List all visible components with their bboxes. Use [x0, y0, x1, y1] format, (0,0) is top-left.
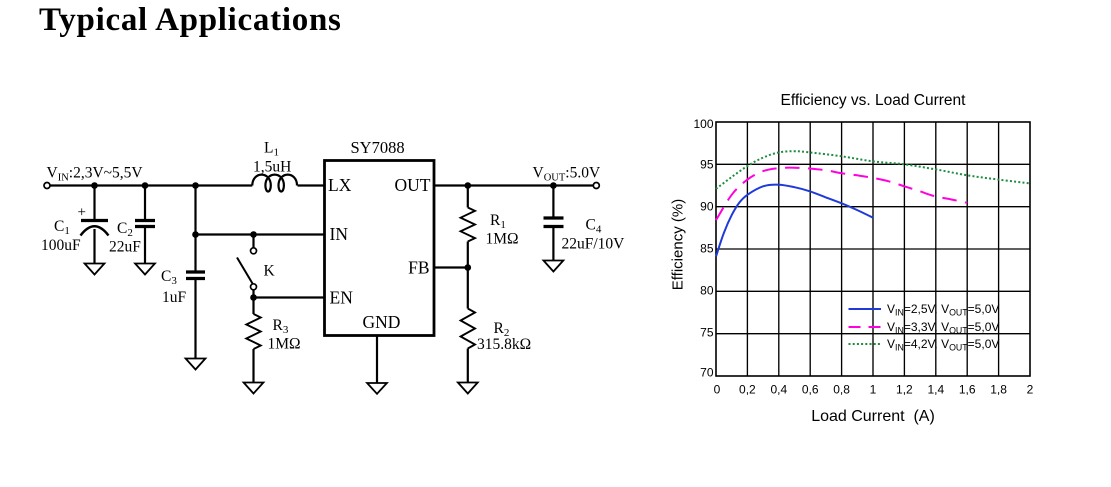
gridlines horizontal	[716, 164, 1030, 333]
svg-text:80: 80	[700, 284, 714, 298]
node switch top	[250, 231, 257, 238]
svg-text:0: 0	[714, 383, 721, 397]
capacitor C3	[186, 235, 205, 359]
svg-text:LX: LX	[328, 175, 352, 195]
curve VIN=3.3V (magenta dashed)	[716, 168, 967, 221]
svg-text:C2: C2	[117, 220, 133, 239]
node C1	[91, 182, 98, 189]
svg-text:R1: R1	[490, 212, 506, 231]
svg-text:1,8: 1,8	[990, 383, 1007, 397]
node R1 top	[465, 182, 472, 189]
ground (R3)	[244, 383, 264, 394]
wire: inductor to LX pin	[298, 184, 325, 186]
plot border	[716, 122, 1030, 376]
svg-text:1MΩ: 1MΩ	[486, 231, 519, 248]
ground (C2)	[135, 264, 155, 275]
wire: GND pin	[376, 336, 378, 384]
svg-text:1MΩ: 1MΩ	[268, 336, 301, 353]
svg-text:85: 85	[700, 242, 714, 256]
node FB	[465, 264, 472, 271]
capacitor C4	[544, 186, 564, 261]
wire: IN rail to IN pin	[196, 233, 325, 235]
wire: FB pin	[434, 266, 468, 268]
svg-text:0,4: 0,4	[770, 383, 787, 397]
legend sample blue	[849, 308, 882, 310]
wire: input to inductor	[50, 184, 252, 186]
resistor R2	[461, 268, 475, 383]
svg-text:0,2: 0,2	[739, 383, 756, 397]
svg-text:FB: FB	[408, 258, 429, 278]
inductor L1	[252, 175, 297, 192]
output terminal	[593, 183, 599, 189]
svg-text:C3: C3	[161, 268, 177, 287]
svg-text:Typical Applications: Typical Applications	[39, 2, 342, 38]
ground (GND pin)	[367, 383, 387, 394]
svg-text:1uF: 1uF	[162, 289, 187, 306]
resistor R1	[461, 186, 475, 268]
gridlines vertical	[747, 122, 998, 376]
x tick labels	[714, 383, 1034, 397]
svg-text:R3: R3	[273, 317, 289, 336]
svg-text:1,6: 1,6	[959, 383, 976, 397]
input terminal	[44, 183, 50, 189]
svg-text:1,2: 1,2	[896, 383, 913, 397]
svg-text:0,6: 0,6	[802, 383, 819, 397]
curve VIN=2.5V (blue)	[716, 185, 873, 257]
legend sample magenta	[849, 326, 882, 328]
legend sample green	[849, 343, 882, 345]
svg-text:OUT: OUT	[395, 175, 431, 195]
svg-text:Load Current (A): Load Current (A)	[811, 408, 935, 425]
svg-text:K: K	[264, 263, 276, 280]
ground (C1)	[85, 264, 105, 275]
svg-text:1,4: 1,4	[927, 383, 944, 397]
svg-text:100: 100	[693, 117, 713, 131]
svg-text:L1: L1	[264, 140, 279, 159]
svg-text:VIN:2,3V~5,5V: VIN:2,3V~5,5V	[47, 165, 144, 184]
svg-text:70: 70	[700, 366, 714, 380]
svg-text:0,8: 0,8	[833, 383, 850, 397]
node EN/R3	[250, 294, 257, 301]
wire: switch to EN pin	[254, 296, 325, 298]
curve VIN=4.2V (green dotted)	[716, 151, 1030, 189]
wire: node A down to IN rail	[194, 186, 196, 235]
svg-text:22uF: 22uF	[109, 239, 141, 256]
svg-text:100uF: 100uF	[41, 237, 81, 254]
svg-text:Efficiency (%): Efficiency (%)	[669, 199, 686, 290]
svg-text:1: 1	[870, 383, 877, 397]
node C2	[142, 182, 149, 189]
ground (C4)	[544, 261, 564, 272]
wire: OUT pin to output terminal	[434, 184, 594, 186]
node A (top of IN branch)	[192, 182, 199, 189]
svg-text:+: +	[78, 205, 86, 221]
ground (C3)	[186, 359, 206, 370]
resistor R3	[246, 298, 260, 383]
svg-text:22uF/10V: 22uF/10V	[562, 236, 626, 253]
svg-text:2: 2	[1027, 383, 1034, 397]
svg-text:C1: C1	[54, 218, 70, 237]
y tick labels	[693, 117, 713, 380]
capacitor C2	[135, 186, 155, 264]
node B (IN rail / C3)	[192, 231, 199, 238]
svg-text:VIN=3,3V, VOUT=5,0V: VIN=3,3V, VOUT=5,0V	[887, 320, 999, 336]
svg-text:VOUT:5.0V: VOUT:5.0V	[533, 165, 601, 184]
svg-text:90: 90	[700, 200, 714, 214]
svg-text:1,5uH: 1,5uH	[253, 159, 291, 176]
svg-text:GND: GND	[363, 312, 401, 332]
svg-text:IN: IN	[330, 224, 349, 244]
chart frame and grid	[716, 122, 1030, 376]
svg-text:315.8kΩ: 315.8kΩ	[477, 336, 531, 353]
svg-text:SY7088: SY7088	[351, 138, 405, 157]
ground (R2)	[458, 383, 478, 394]
svg-text:EN: EN	[330, 288, 354, 308]
svg-text:75: 75	[700, 326, 714, 340]
svg-text:95: 95	[700, 158, 714, 172]
node C4	[550, 182, 557, 189]
svg-text:Efficiency vs. Load Current: Efficiency vs. Load Current	[781, 92, 967, 109]
capacitor C1 (electrolytic)	[81, 186, 109, 264]
op-amp U1 SY7088 box	[325, 161, 435, 336]
svg-text:VIN=4,2V, VOUT=5,0V: VIN=4,2V, VOUT=5,0V	[887, 337, 999, 353]
switch K	[237, 235, 257, 298]
svg-text:VIN=2,5V, VOUT=5,0V: VIN=2,5V, VOUT=5,0V	[887, 302, 999, 318]
svg-text:C4: C4	[586, 217, 602, 236]
